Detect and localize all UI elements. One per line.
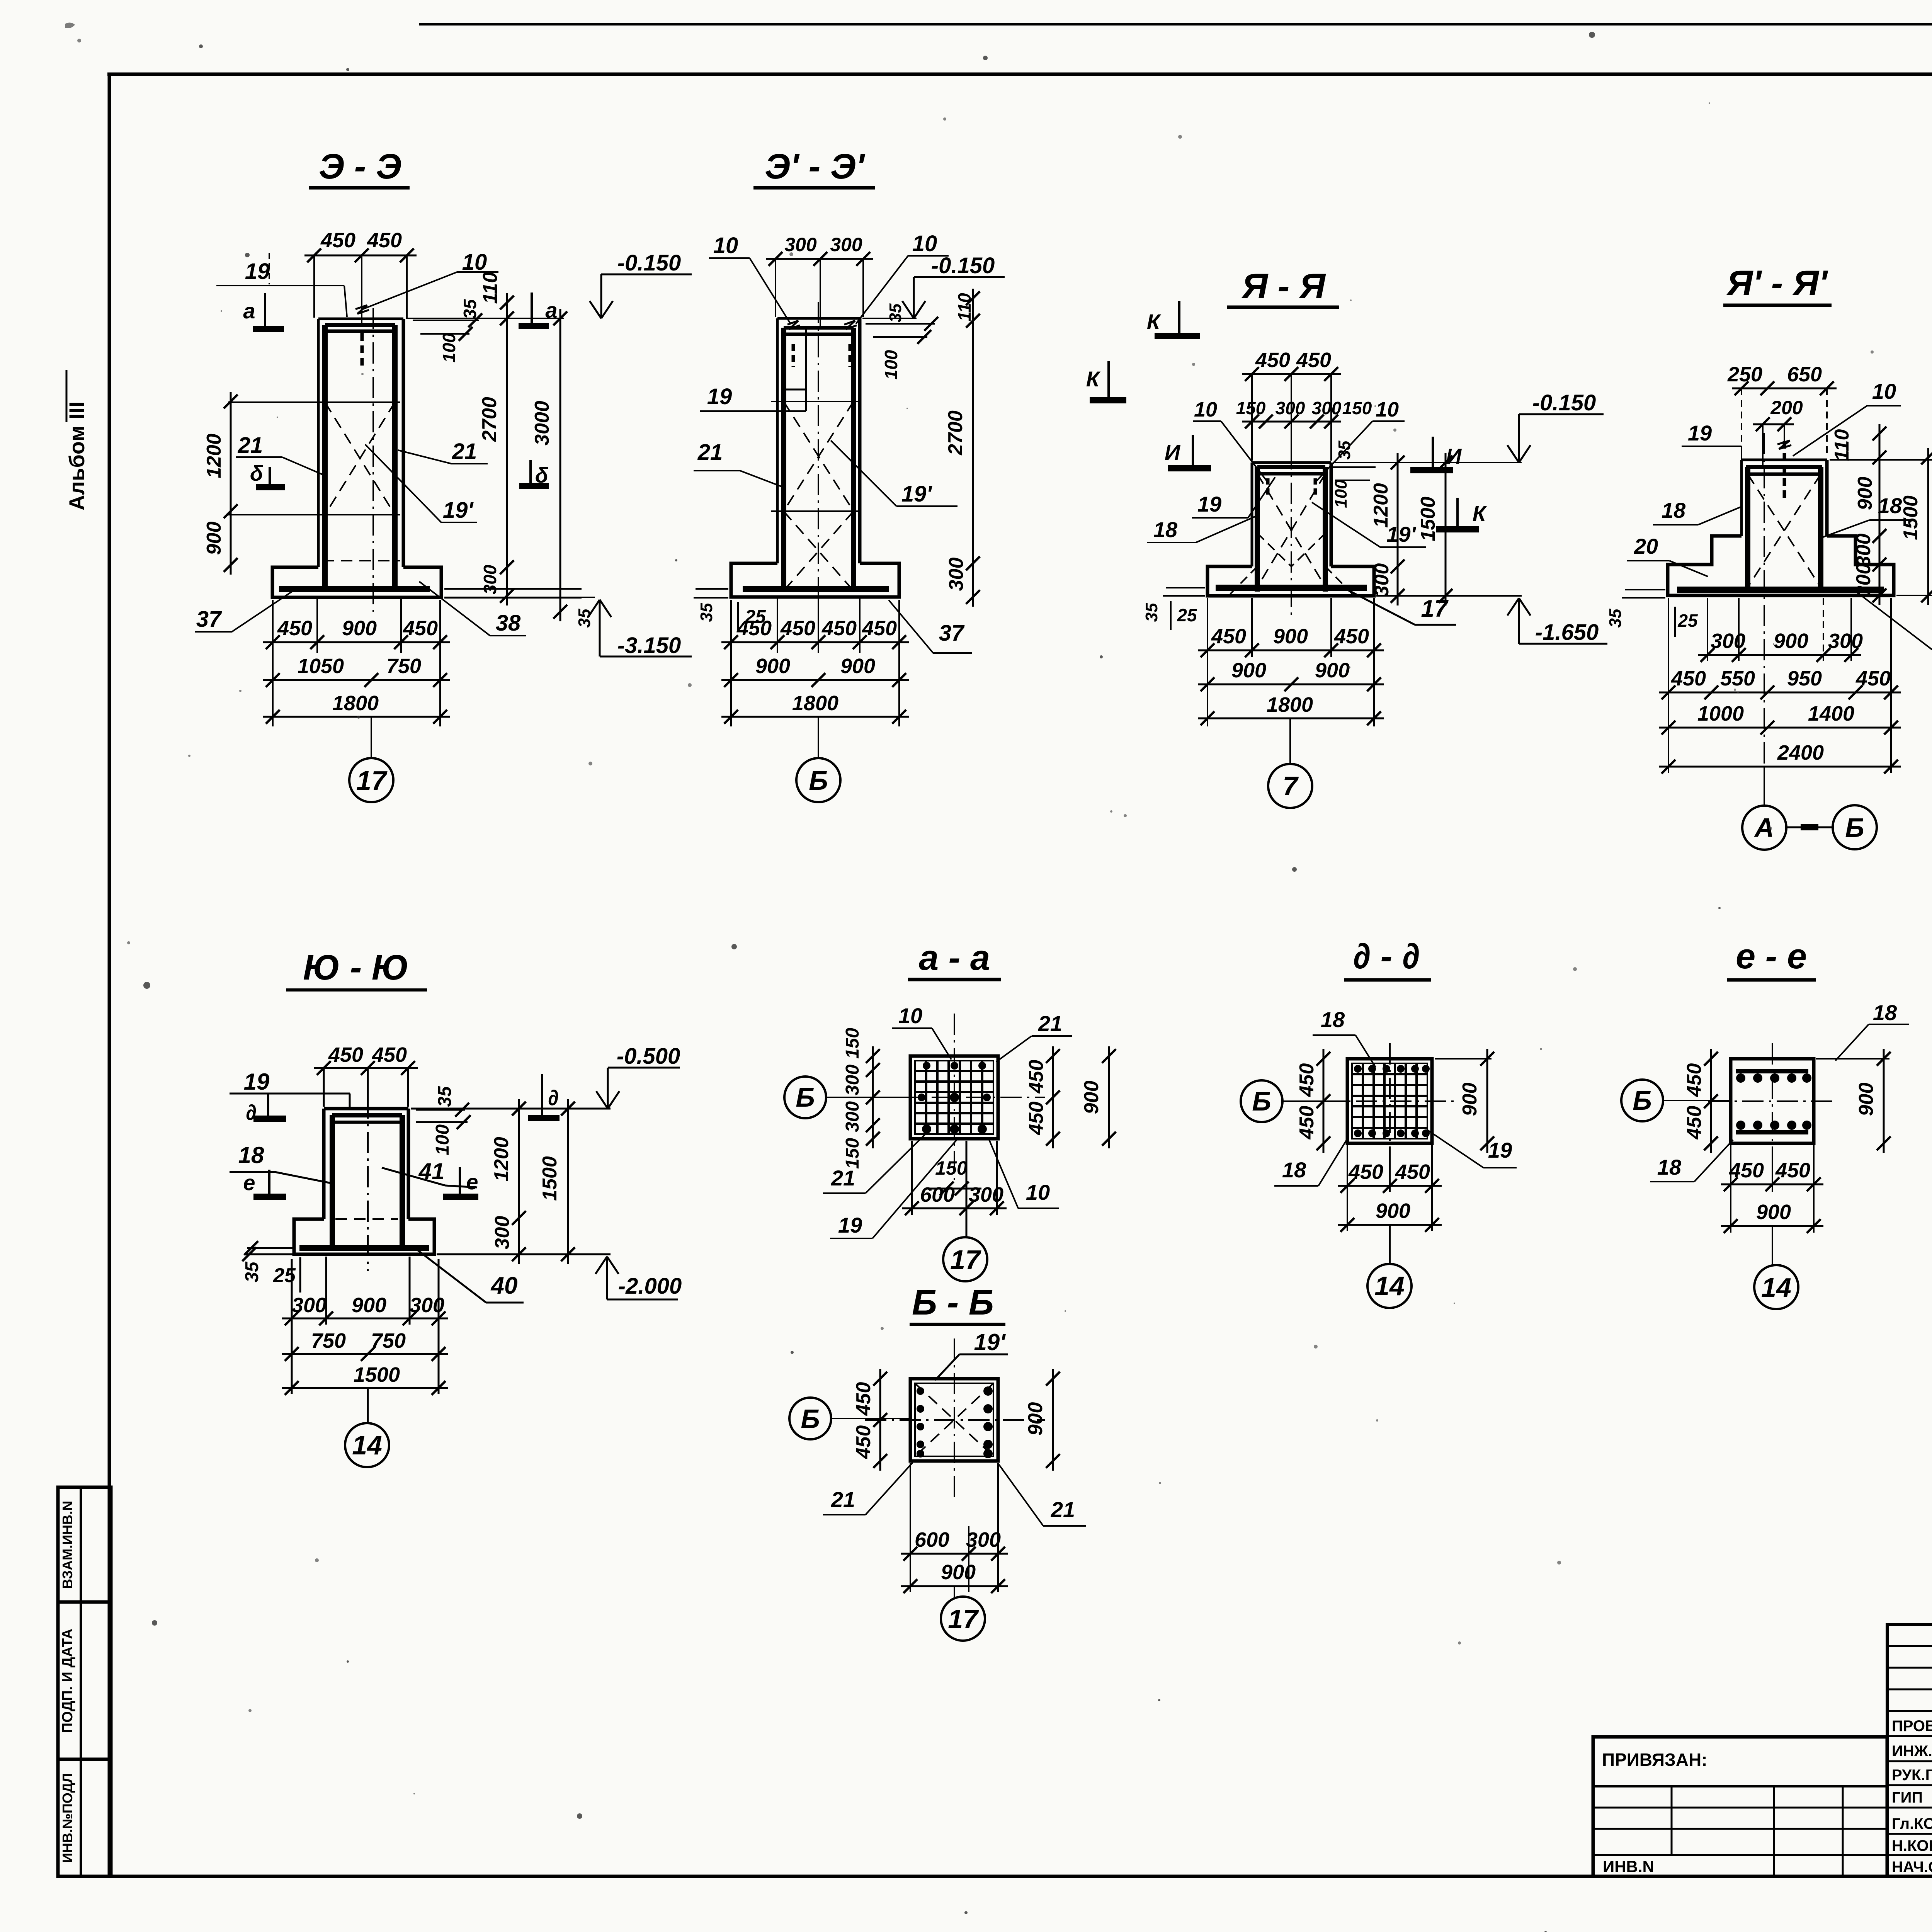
svg-text:450: 450 bbox=[1683, 1063, 1706, 1097]
svg-text:1400: 1400 bbox=[1808, 702, 1854, 725]
Ya-Ya column outline bbox=[1252, 461, 1331, 464]
svg-text:450: 450 bbox=[1296, 349, 1331, 372]
svg-text:ИНЖ.: ИНЖ. bbox=[1892, 1743, 1932, 1760]
svg-text:21: 21 bbox=[831, 1166, 855, 1190]
svg-text:300: 300 bbox=[1711, 629, 1745, 653]
Yu-Yu bottom mesh bar 40 bbox=[299, 1245, 429, 1251]
svg-text:10: 10 bbox=[1026, 1180, 1050, 1204]
svg-text:1050: 1050 bbox=[298, 655, 344, 678]
Ya'-Ya' anchor bolt dashed bbox=[1783, 441, 1786, 498]
svg-text:10: 10 bbox=[898, 1003, 922, 1028]
Yu-Yu footing top dashed inside bbox=[335, 1218, 398, 1220]
Ya-Ya bottom chain 900 900 bbox=[1198, 684, 1384, 685]
svg-text:300: 300 bbox=[1371, 563, 1393, 597]
E-E axis circle 17 bbox=[371, 717, 372, 759]
svg-text:35: 35 bbox=[242, 1261, 262, 1282]
E'-E' top bars bbox=[784, 326, 854, 330]
svg-text:ГИП: ГИП bbox=[1892, 1789, 1923, 1806]
E-E footing top dashed inside bbox=[322, 560, 400, 561]
e-e bottom bar with dots bbox=[1736, 1130, 1808, 1134]
svg-text:е - е: е - е bbox=[1736, 937, 1807, 976]
svg-text:450: 450 bbox=[1296, 1106, 1318, 1140]
Yu-Yu rebar 18 left bbox=[330, 1115, 335, 1248]
B-B bottom dim 600 300 bbox=[910, 1463, 911, 1592]
svg-text:450: 450 bbox=[862, 617, 897, 640]
e-e column square outline bbox=[1731, 1059, 1814, 1143]
d-d centerlines bbox=[1321, 1100, 1457, 1102]
e-e axis circle 14 bbox=[1772, 1226, 1773, 1266]
svg-text:41: 41 bbox=[418, 1158, 445, 1184]
svg-text:300: 300 bbox=[480, 565, 500, 594]
svg-text:300: 300 bbox=[292, 1294, 327, 1317]
Yu-Yu bottom chain 300 900 300 bbox=[291, 1259, 293, 1394]
E'-E' small dims 110 35 100 bbox=[866, 323, 935, 325]
svg-text:300: 300 bbox=[842, 1101, 863, 1132]
Yu-Yu bottom chain 750 750 bbox=[282, 1353, 448, 1355]
svg-text:900: 900 bbox=[1273, 625, 1308, 648]
svg-text:300: 300 bbox=[966, 1528, 1001, 1551]
Ya-Ya bottom chain 1800 bbox=[1198, 718, 1384, 719]
svg-text:И: И bbox=[1165, 440, 1181, 464]
svg-text:7: 7 bbox=[1283, 771, 1299, 801]
svg-text:450: 450 bbox=[1025, 1060, 1048, 1094]
E-E right dim line 110/2700 bbox=[506, 293, 508, 605]
svg-text:17: 17 bbox=[950, 1245, 981, 1275]
B-B dashed X bbox=[915, 1383, 993, 1456]
svg-text:300: 300 bbox=[1828, 629, 1863, 653]
svg-text:150: 150 bbox=[1342, 398, 1372, 418]
svg-text:950: 950 bbox=[1787, 667, 1822, 690]
svg-text:300: 300 bbox=[784, 234, 817, 255]
Ya'-Ya' top bars bbox=[1746, 465, 1822, 469]
a-a axis circle 17 bbox=[966, 1208, 968, 1237]
B-B axis circle 17 bbox=[954, 1586, 955, 1597]
Ya-Ya footing outline bbox=[1207, 566, 1374, 596]
E-E column axis bbox=[372, 308, 374, 612]
svg-text:150: 150 bbox=[842, 1138, 863, 1169]
svg-text:Э - Э: Э - Э bbox=[319, 147, 401, 186]
E'-E' dashed X lower bbox=[784, 511, 854, 591]
E-E bottom dim chain 1050 750 bbox=[263, 679, 450, 681]
svg-text:20: 20 bbox=[1634, 534, 1658, 558]
Yu-Yu level -2.000 bbox=[607, 1299, 678, 1301]
svg-text:110: 110 bbox=[954, 293, 975, 321]
svg-text:100: 100 bbox=[439, 333, 459, 362]
svg-text:18: 18 bbox=[238, 1142, 264, 1168]
svg-text:600: 600 bbox=[920, 1183, 955, 1206]
svg-text:900: 900 bbox=[1774, 629, 1808, 653]
e-e grid circle B bbox=[1621, 1080, 1663, 1121]
svg-text:ПРОВЕР.: ПРОВЕР. bbox=[1892, 1718, 1932, 1735]
svg-text:300: 300 bbox=[969, 1183, 1003, 1206]
svg-text:37: 37 bbox=[196, 607, 222, 632]
Yu-Yu small dims 35 100 right bbox=[416, 1109, 465, 1111]
svg-text:19: 19 bbox=[1688, 421, 1712, 445]
a-a bottom dim 600 300 bbox=[911, 1141, 913, 1215]
Ya'-Ya' column axis bbox=[1764, 433, 1765, 769]
svg-text:450: 450 bbox=[852, 1425, 875, 1459]
a-a rebar dots bbox=[923, 1062, 930, 1070]
Ya-Ya right dim 1200 300 bbox=[1397, 453, 1399, 605]
B-B column square outline bbox=[910, 1379, 998, 1461]
Ya-Ya bottom-left cover 35 25 bbox=[1166, 587, 1205, 588]
svg-text:18: 18 bbox=[1153, 517, 1178, 542]
svg-text:450: 450 bbox=[1255, 349, 1290, 372]
svg-text:21: 21 bbox=[1038, 1011, 1062, 1036]
E-E top dim 450 450 bbox=[304, 255, 417, 257]
E-E level -0.150 bbox=[601, 274, 692, 276]
E-E bottom dim chain 450 900 450 bbox=[272, 600, 274, 726]
E-E bottom mesh bar 37 bbox=[279, 586, 430, 592]
svg-text:300: 300 bbox=[410, 1294, 444, 1317]
svg-text:ВЗАМ.ИНВ.N: ВЗАМ.ИНВ.N bbox=[60, 1501, 75, 1589]
svg-text:18: 18 bbox=[1662, 498, 1686, 522]
left margin stamp boxes bbox=[58, 1487, 111, 1876]
svg-text:Э' - Э': Э' - Э' bbox=[765, 147, 866, 186]
E-E right small dims 35 100 110 bbox=[413, 320, 479, 321]
svg-text:ИНВ.№ПОДЛ: ИНВ.№ПОДЛ bbox=[60, 1773, 75, 1863]
e-e top bar with dots bbox=[1736, 1069, 1808, 1073]
svg-text:450: 450 bbox=[1025, 1102, 1048, 1136]
scan smudge top-left corner bbox=[65, 22, 75, 28]
svg-text:1500: 1500 bbox=[539, 1156, 561, 1201]
Yu-Yu axis circle 14 bbox=[367, 1388, 369, 1423]
svg-text:И: И bbox=[1446, 444, 1462, 468]
svg-text:450: 450 bbox=[1211, 625, 1246, 648]
Ya-Ya top dim 450 450 bbox=[1242, 373, 1341, 375]
Ya'-Ya' rebar 18 right bbox=[1818, 467, 1823, 587]
svg-text:К: К bbox=[1147, 310, 1162, 334]
Ya-Ya anchor bolts dashed bbox=[1266, 478, 1270, 498]
svg-text:19: 19 bbox=[1197, 492, 1221, 516]
Yu-Yu right dim 1200 300 bbox=[518, 1099, 520, 1264]
scan specks bbox=[199, 44, 203, 48]
a-a mesh grid bbox=[925, 1061, 927, 1134]
svg-text:ПОДП. И ДАТА: ПОДП. И ДАТА bbox=[60, 1629, 76, 1733]
Yu-Yu right dim 1500 bbox=[567, 1099, 569, 1264]
Yu-Yu bottom chain 1500 bbox=[282, 1387, 448, 1389]
E-E column outline bbox=[318, 318, 403, 320]
E'-E' bottom mesh bar 37 bbox=[743, 586, 889, 592]
svg-text:450: 450 bbox=[367, 229, 402, 252]
svg-text:200: 200 bbox=[1770, 397, 1803, 418]
svg-text:Б - Б: Б - Б bbox=[912, 1283, 994, 1322]
svg-text:450: 450 bbox=[1334, 625, 1369, 648]
svg-text:1800: 1800 bbox=[792, 692, 838, 715]
svg-text:-0.150: -0.150 bbox=[1532, 390, 1596, 415]
svg-text:-1.650: -1.650 bbox=[1535, 620, 1599, 645]
svg-text:1200: 1200 bbox=[203, 434, 225, 478]
Ya-Ya level -0.150 bbox=[1519, 413, 1604, 415]
svg-text:1500: 1500 bbox=[1900, 495, 1922, 540]
svg-text:19': 19' bbox=[901, 481, 933, 507]
E-E rebar 21 right vertical bbox=[392, 325, 398, 589]
B-B rebar dots bbox=[917, 1387, 924, 1395]
Yu-Yu column outline bbox=[324, 1107, 408, 1111]
E'-E' bottom chain 1800 bbox=[721, 716, 909, 718]
B-B bottom dim 900 bbox=[901, 1585, 1008, 1587]
svg-text:38: 38 bbox=[496, 611, 521, 636]
Ya'-Ya' column outline bbox=[1742, 459, 1827, 461]
svg-text:900: 900 bbox=[1080, 1081, 1103, 1114]
svg-text:35: 35 bbox=[435, 1086, 455, 1107]
svg-text:10: 10 bbox=[462, 250, 487, 275]
svg-text:Б: Б bbox=[1633, 1085, 1652, 1116]
Yu-Yu top dim 450 450 bbox=[314, 1067, 418, 1069]
svg-text:-0.150: -0.150 bbox=[931, 253, 995, 278]
svg-text:14: 14 bbox=[352, 1430, 382, 1460]
svg-text:300: 300 bbox=[1276, 398, 1305, 418]
svg-text:450: 450 bbox=[1395, 1160, 1430, 1184]
E'-E' bottom-left cover 35 25 bbox=[696, 588, 728, 590]
svg-text:Б: Б bbox=[1845, 813, 1864, 843]
a-a grid circle B bbox=[784, 1077, 826, 1118]
E-E right dim line 3000 bbox=[560, 309, 561, 621]
svg-text:Ю - Ю: Ю - Ю bbox=[303, 948, 408, 987]
Yu-Yu level -0.500 bbox=[608, 1067, 680, 1069]
svg-text:1000: 1000 bbox=[1697, 702, 1744, 725]
svg-text:100: 100 bbox=[881, 350, 901, 379]
Ya-Ya column axis bbox=[1291, 448, 1292, 618]
svg-text:40: 40 bbox=[490, 1272, 518, 1299]
title block central table outline bbox=[1887, 1624, 1932, 1876]
svg-text:РУК.ГР.: РУК.ГР. bbox=[1892, 1767, 1932, 1784]
Yu-Yu top bars 19 bbox=[332, 1113, 402, 1117]
svg-text:Я' - Я': Я' - Я' bbox=[1726, 264, 1828, 303]
svg-text:450: 450 bbox=[372, 1043, 407, 1066]
svg-text:а - а: а - а bbox=[919, 938, 990, 978]
svg-text:Б: Б bbox=[809, 765, 828, 796]
E-E anchor bolt 10 dashed bbox=[361, 333, 364, 369]
svg-text:900: 900 bbox=[1315, 659, 1350, 682]
d-d grid circle B bbox=[1241, 1080, 1282, 1122]
svg-text:450: 450 bbox=[328, 1043, 363, 1066]
Ya'-Ya' top dim 200 bbox=[1753, 423, 1794, 425]
svg-text:18: 18 bbox=[1878, 493, 1902, 518]
svg-text:1800: 1800 bbox=[332, 692, 379, 715]
left attach table bbox=[1593, 1737, 1887, 1876]
svg-text:К: К bbox=[1473, 501, 1487, 526]
svg-text:18: 18 bbox=[1873, 1000, 1897, 1025]
svg-text:19': 19' bbox=[974, 1329, 1006, 1355]
svg-text:-0.500: -0.500 bbox=[617, 1044, 680, 1069]
B-B centerlines bbox=[865, 1419, 1045, 1421]
Ya-Ya level -1.650 bbox=[1519, 643, 1607, 645]
E-E level -3.150 bbox=[600, 656, 692, 658]
svg-text:10: 10 bbox=[1872, 379, 1896, 403]
d-d right dim 900 bbox=[1435, 1058, 1492, 1060]
E'-E' level -0.150 bbox=[914, 276, 1005, 278]
svg-text:900: 900 bbox=[1024, 1402, 1047, 1436]
Ya'-Ya' bottom chain 450 550 950 450 bbox=[1668, 598, 1669, 773]
svg-text:600: 600 bbox=[915, 1528, 949, 1551]
svg-text:100: 100 bbox=[432, 1124, 453, 1155]
svg-text:300: 300 bbox=[945, 558, 968, 591]
Ya-Ya small dims 35 100 bbox=[1333, 466, 1376, 468]
svg-text:19: 19 bbox=[1488, 1138, 1512, 1162]
svg-text:450: 450 bbox=[821, 617, 857, 640]
svg-text:900: 900 bbox=[1854, 477, 1876, 510]
svg-text:450: 450 bbox=[1671, 667, 1706, 690]
Ya-Ya rebar 18 left bbox=[1255, 467, 1260, 592]
svg-text:17: 17 bbox=[1421, 595, 1449, 622]
svg-text:900: 900 bbox=[203, 522, 225, 555]
E'-E' column axis bbox=[818, 302, 819, 616]
svg-text:1800: 1800 bbox=[1267, 693, 1313, 716]
svg-text:900: 900 bbox=[342, 617, 377, 640]
svg-text:14: 14 bbox=[1761, 1272, 1791, 1303]
E'-E' dashed X upper bbox=[784, 401, 854, 511]
svg-text:Б: Б bbox=[796, 1082, 815, 1112]
svg-text:450: 450 bbox=[780, 617, 815, 640]
svg-text:37: 37 bbox=[939, 621, 965, 646]
Ya-Ya bottom mesh bar 17 bbox=[1216, 585, 1367, 591]
svg-text:650: 650 bbox=[1787, 363, 1822, 386]
svg-text:10: 10 bbox=[713, 233, 738, 258]
E'-E' anchor bolt dashes bbox=[792, 344, 795, 367]
svg-text:300: 300 bbox=[1312, 398, 1342, 418]
e-e centerlines bbox=[1708, 1100, 1835, 1102]
E'-E' footing outline bbox=[731, 563, 899, 597]
svg-text:900: 900 bbox=[1756, 1201, 1791, 1224]
svg-text:∂ - ∂: ∂ - ∂ bbox=[1353, 937, 1420, 976]
d-d mesh grid bbox=[1362, 1063, 1364, 1139]
e-e left dim 450 450 bbox=[1710, 1049, 1712, 1153]
svg-text:21: 21 bbox=[238, 433, 263, 458]
svg-text:450: 450 bbox=[1729, 1159, 1764, 1182]
Yu-Yu rebar 18 right bbox=[400, 1115, 405, 1248]
d-d left dim 450 450 bbox=[1323, 1049, 1325, 1153]
e-e bottom dim 450 450 bbox=[1730, 1145, 1731, 1233]
frame top border bbox=[107, 73, 1932, 76]
Ya-Ya top bars 19 bbox=[1257, 465, 1325, 469]
svg-text:1200: 1200 bbox=[490, 1137, 513, 1182]
svg-text:35: 35 bbox=[1142, 603, 1161, 622]
Yu-Yu footing outline bbox=[294, 1219, 434, 1254]
E'-E' X boundary lines bbox=[771, 401, 860, 402]
a-a left dim 150 300 300 150 bbox=[872, 1046, 874, 1148]
Ya-Ya dashed X bbox=[1257, 474, 1325, 587]
Ya'-Ya' axis circles A and B bbox=[1764, 767, 1765, 806]
svg-text:∂: ∂ bbox=[548, 1085, 559, 1110]
svg-text:-0.150: -0.150 bbox=[617, 250, 681, 276]
svg-text:2700: 2700 bbox=[944, 410, 967, 456]
svg-text:900: 900 bbox=[1231, 659, 1266, 682]
d-d bottom dim 450 450 bbox=[1347, 1145, 1348, 1231]
svg-text:Б: Б bbox=[801, 1404, 820, 1434]
E-E top bar 19 bbox=[325, 323, 395, 327]
e-e right dim 900 bbox=[1816, 1058, 1889, 1060]
d-d rebar dots bbox=[1354, 1065, 1362, 1073]
svg-text:10: 10 bbox=[1194, 398, 1217, 421]
svg-text:НАЧ.ОТД: НАЧ.ОТД bbox=[1892, 1859, 1932, 1876]
svg-text:450: 450 bbox=[1775, 1159, 1810, 1182]
E'-E' top dim 300 300 bbox=[766, 258, 873, 260]
a-a right dim 450 450 bbox=[1052, 1046, 1054, 1148]
Ya-Ya bottom chain 450 900 450 bbox=[1207, 598, 1208, 726]
svg-text:18: 18 bbox=[1321, 1007, 1345, 1032]
svg-text:900: 900 bbox=[840, 655, 875, 678]
frame bottom border bbox=[58, 1875, 1932, 1878]
svg-text:Гл.КОНСТ: Гл.КОНСТ bbox=[1892, 1815, 1932, 1832]
Ya'-Ya' rebar 18 left bbox=[1745, 467, 1750, 587]
svg-text:450: 450 bbox=[403, 617, 438, 640]
svg-text:19: 19 bbox=[838, 1213, 862, 1237]
svg-text:750: 750 bbox=[371, 1329, 406, 1352]
Ya'-Ya' dashed X bbox=[1748, 474, 1821, 587]
svg-text:Я - Я: Я - Я bbox=[1241, 267, 1326, 306]
svg-text:35: 35 bbox=[697, 603, 716, 622]
svg-text:19': 19' bbox=[443, 498, 474, 523]
E'-E' column outline bbox=[777, 317, 860, 320]
svg-text:е: е bbox=[466, 1170, 478, 1194]
B-B grid circle B bbox=[789, 1398, 831, 1439]
svg-text:250: 250 bbox=[1727, 363, 1762, 386]
svg-text:10: 10 bbox=[912, 231, 937, 256]
E'-E' bottom chain 450x4 bbox=[730, 600, 732, 726]
a-a right dim 900 bbox=[1108, 1046, 1110, 1148]
svg-text:1500: 1500 bbox=[1417, 497, 1439, 541]
svg-text:550: 550 bbox=[1720, 667, 1755, 690]
svg-text:2400: 2400 bbox=[1777, 741, 1824, 764]
E'-E' axis circle B bbox=[818, 717, 819, 759]
Ya-Ya axis circle 7 bbox=[1289, 718, 1291, 765]
svg-text:Б: Б bbox=[1252, 1086, 1271, 1116]
svg-text:ИНВ.N: ИНВ.N bbox=[1603, 1857, 1654, 1876]
Ya'-Ya' bottom-left cover 35 25 bbox=[1625, 589, 1665, 590]
svg-text:-3.150: -3.150 bbox=[617, 633, 681, 658]
frame left border bbox=[108, 73, 111, 1878]
svg-text:-2.000: -2.000 bbox=[618, 1274, 682, 1299]
svg-text:150: 150 bbox=[842, 1028, 863, 1059]
svg-text:25: 25 bbox=[1677, 611, 1698, 631]
svg-text:1200: 1200 bbox=[1370, 483, 1392, 528]
E'-E' rebar left bbox=[781, 328, 786, 592]
Ya'-Ya' bottom chain 2400 bbox=[1659, 766, 1901, 768]
svg-text:10: 10 bbox=[1376, 398, 1399, 421]
svg-text:450: 450 bbox=[736, 617, 772, 640]
svg-text:14: 14 bbox=[1374, 1271, 1405, 1301]
E-E rebar 21 left vertical bbox=[322, 325, 328, 589]
svg-text:900: 900 bbox=[1855, 1083, 1878, 1116]
Ya-Ya right dim 1500 bbox=[1445, 453, 1447, 605]
B-B right dim 900 bbox=[1052, 1369, 1054, 1471]
svg-text:100: 100 bbox=[1332, 480, 1350, 508]
svg-text:110: 110 bbox=[479, 272, 502, 304]
Yu-Yu bottom-left cover 35 25 bbox=[247, 1247, 293, 1249]
E'-E' right dim 2700 300 bbox=[972, 289, 974, 607]
Ya'-Ya' stepped footing outline bbox=[1668, 536, 1894, 595]
Ya-Ya top dim chain 150 300 300 150 bbox=[1242, 421, 1341, 423]
svg-text:1500: 1500 bbox=[354, 1363, 400, 1386]
svg-text:К: К bbox=[1086, 367, 1101, 391]
svg-text:19: 19 bbox=[245, 259, 270, 284]
svg-text:25: 25 bbox=[1177, 605, 1197, 625]
B-B left dim 450 450 bbox=[879, 1369, 881, 1471]
svg-text:150: 150 bbox=[935, 1157, 968, 1179]
Ya'-Ya' right dim 1500 bbox=[1927, 448, 1929, 605]
svg-text:21: 21 bbox=[697, 440, 723, 465]
Ya'-Ya' bottom chain 1000 1400 bbox=[1659, 727, 1901, 729]
svg-text:900: 900 bbox=[755, 655, 790, 678]
d-d bottom dim 900 bbox=[1338, 1224, 1442, 1226]
svg-text:19: 19 bbox=[707, 384, 732, 409]
svg-text:900: 900 bbox=[1459, 1083, 1481, 1116]
svg-text:300: 300 bbox=[830, 234, 862, 255]
a-a column square outline bbox=[910, 1056, 998, 1139]
svg-text:δ: δ bbox=[250, 461, 264, 485]
svg-text:Н.КОНТР: Н.КОНТР bbox=[1892, 1837, 1932, 1854]
